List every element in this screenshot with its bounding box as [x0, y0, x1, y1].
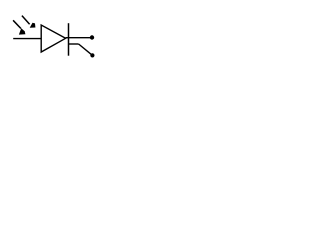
wire: lower lead diagonal: [79, 44, 93, 55]
diode triangle: [41, 25, 65, 52]
cathode bar: [68, 23, 70, 56]
node dot upper: [90, 35, 94, 39]
light arrow 2 (right): [22, 16, 36, 28]
wire: anode lead: [13, 38, 41, 40]
wire: upper lead: [66, 37, 91, 39]
photodiode D1 schematic: [0, 0, 114, 76]
wire: lower lead horizontal: [69, 43, 79, 45]
light arrow 1 (left): [13, 20, 25, 34]
node dot lower: [90, 53, 94, 57]
